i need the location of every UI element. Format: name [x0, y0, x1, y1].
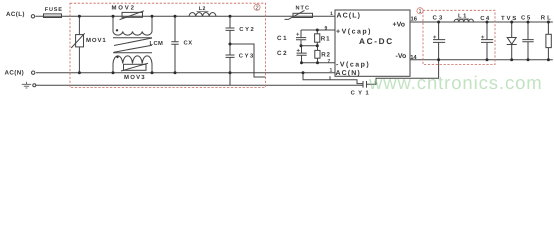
svg-text:R2: R2 [321, 52, 331, 59]
thermistor NTC [285, 10, 313, 19]
svg-text:RL: RL [541, 15, 553, 22]
svg-text:14: 14 [410, 55, 417, 61]
svg-text:C5: C5 [521, 15, 532, 22]
svg-text:AC(N): AC(N) [336, 69, 361, 77]
capacitor CY3 [226, 44, 235, 85]
core slash 2 [114, 45, 152, 52]
wire CY midpoint to chassis [230, 44, 266, 77]
pin numbers [325, 11, 418, 73]
svg-text:CY2: CY2 [239, 26, 255, 33]
wire balance midpoint [301, 45, 317, 47]
circled number 1 [417, 8, 423, 15]
svg-text:MOV3: MOV3 [124, 74, 146, 81]
inductor L1 [454, 19, 474, 22]
svg-text:+V(cap): +V(cap) [336, 28, 372, 36]
svg-text:9: 9 [325, 25, 328, 31]
svg-text:2: 2 [255, 5, 258, 11]
inductor L2 [189, 13, 216, 17]
wire -Vo output rail [410, 59, 553, 61]
node AC(L) terminal [31, 15, 34, 18]
svg-text:www.cntronics.com: www.cntronics.com [368, 72, 543, 93]
svg-text:-Vo: -Vo [396, 53, 407, 60]
resistor R2 [315, 46, 320, 63]
capacitor CX [171, 16, 178, 72]
svg-text:L1: L1 [458, 14, 468, 20]
common-mode choke LCM bottom winding [113, 53, 152, 73]
svg-text:MOV1: MOV1 [86, 37, 107, 44]
wire chassis jog to CY1 [330, 80, 363, 84]
svg-text:C1: C1 [277, 35, 288, 42]
svg-text:CY3: CY3 [239, 53, 255, 60]
svg-text:CX: CX [184, 40, 193, 47]
dashed EMI-filter box 2 [70, 3, 266, 87]
core slash 1 [114, 38, 152, 46]
svg-text:AC-DC: AC-DC [359, 37, 394, 46]
svg-text:AC(N): AC(N) [5, 70, 25, 77]
svg-text:L2: L2 [199, 6, 206, 12]
TVS diode [507, 22, 517, 60]
svg-text:+Vo: +Vo [393, 22, 406, 29]
circled number 2 [254, 4, 260, 11]
svg-text:TVS: TVS [501, 15, 518, 22]
node earth terminal [33, 84, 36, 87]
wire -V(cap) [302, 62, 336, 64]
capacitor C3 [433, 22, 445, 60]
resistor RL [546, 22, 551, 60]
phase dot top winding [116, 29, 118, 31]
varistor MOV2 [120, 11, 144, 20]
svg-text:C2: C2 [277, 50, 288, 57]
svg-text:AC(L): AC(L) [337, 11, 362, 19]
svg-text:LCM: LCM [150, 40, 164, 47]
svg-text:FUSE: FUSE [45, 7, 63, 13]
svg-text:C4: C4 [480, 15, 490, 22]
wire +Vo output rail [410, 21, 553, 23]
svg-text:-V(cap): -V(cap) [336, 61, 370, 69]
svg-text:AC(L): AC(L) [6, 11, 25, 18]
wire CY1 to output common [367, 60, 439, 85]
svg-text:C3: C3 [433, 15, 445, 22]
capacitor C5 [522, 22, 533, 60]
svg-text:1: 1 [418, 9, 421, 15]
capacitor C4 [481, 22, 493, 60]
capacitor CY1 [363, 81, 367, 88]
svg-text:R1: R1 [321, 35, 331, 42]
dashed output-filter box 1 [423, 10, 495, 64]
svg-text:MOV2: MOV2 [112, 5, 136, 12]
svg-text:1: 1 [330, 11, 333, 17]
wire earth ground bus [36, 84, 363, 86]
node AC(N) terminal [32, 71, 35, 74]
varistor MOV1 [71, 16, 85, 72]
svg-text:7: 7 [328, 59, 331, 65]
varistor MOV3 [121, 63, 148, 71]
L2 label underline [197, 10, 209, 12]
AC-DC converter U1 box [335, 10, 410, 76]
wire AC(N) bottom rail [36, 72, 335, 74]
AC-DC box labels [336, 11, 407, 77]
capacitor C2 [297, 46, 307, 63]
svg-text:1: 1 [330, 68, 333, 74]
junction dots [78, 15, 550, 74]
svg-text:16: 16 [411, 16, 418, 23]
ground [22, 82, 31, 88]
wire N-rail to CY1 chassis route [303, 73, 330, 80]
capacitor CY2 [226, 16, 235, 44]
capacitor C1 [296, 30, 306, 46]
fuse FUSE [44, 14, 62, 18]
common-mode choke LCM top winding [113, 16, 152, 38]
svg-text:NTC: NTC [296, 5, 311, 11]
wire AC(L) top rail [36, 15, 336, 17]
resistor R1 [315, 30, 320, 46]
phase dot bottom winding [116, 56, 118, 58]
wire +V(cap) [301, 29, 335, 31]
